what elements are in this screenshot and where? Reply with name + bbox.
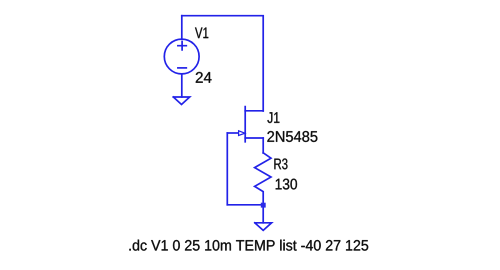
- transistor J1 drain tap: [245, 110, 263, 112]
- label 2N5485: [267, 131, 317, 142]
- transistor J1 source tap: [245, 137, 263, 139]
- voltage source V1: [164, 39, 199, 74]
- resistor R3: [255, 153, 271, 205]
- label R3: [274, 158, 287, 169]
- label 130: [276, 179, 297, 190]
- ground under V1: [173, 97, 189, 105]
- node junction: [261, 203, 266, 208]
- transistor J1 channel: [244, 107, 246, 142]
- wire V1 top lead: [181, 16, 183, 40]
- label V1: [195, 27, 208, 38]
- wire bottom to node: [227, 204, 263, 206]
- label J1: [267, 112, 279, 123]
- ground bottom: [255, 223, 272, 231]
- wire top net V1 plus to drain: [182, 16, 263, 111]
- wire node to ground: [262, 205, 264, 223]
- label 24: [196, 72, 212, 83]
- wire V1 bottom lead: [181, 74, 183, 97]
- spice directive .dc: [129, 240, 368, 251]
- wire gate down left: [226, 133, 228, 205]
- transistor J1 gate lead: [227, 132, 239, 134]
- wire source to resistor: [262, 138, 264, 153]
- transistor J1 gate arrow: [239, 131, 245, 136]
